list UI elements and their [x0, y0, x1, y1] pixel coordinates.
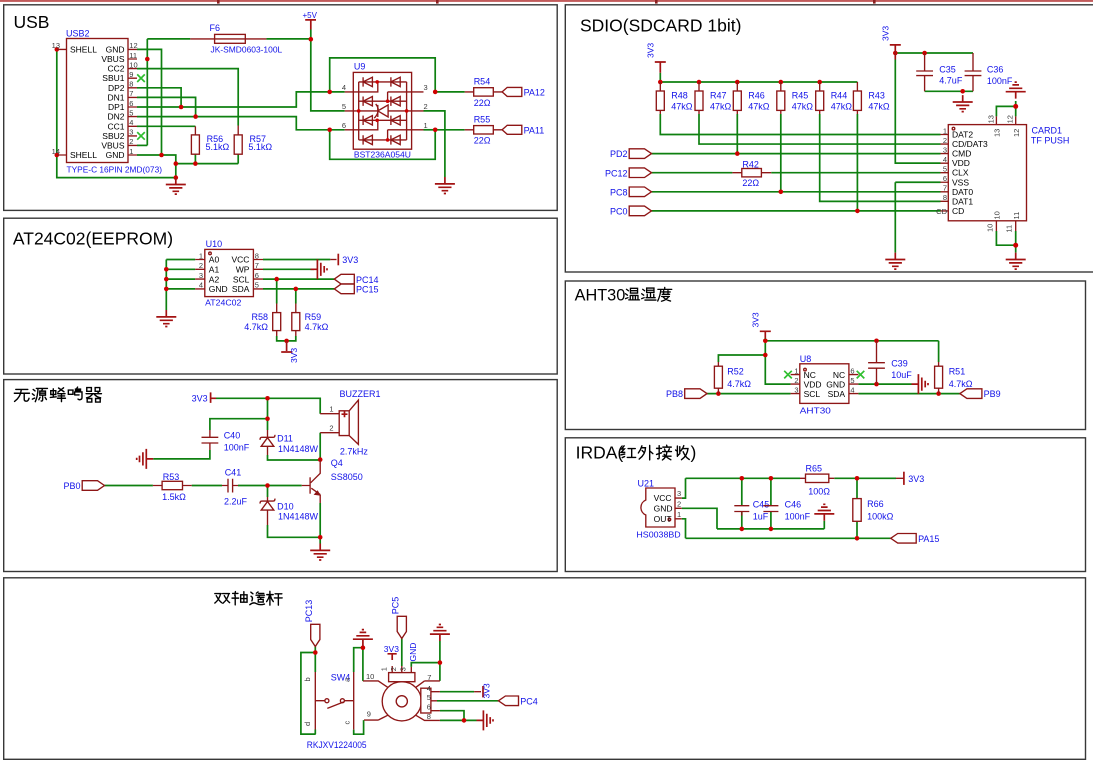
svg-text:6: 6 [129, 99, 133, 108]
wire U9 top loop [330, 58, 436, 92]
svg-text:GND: GND [106, 44, 125, 54]
svg-text:7: 7 [943, 184, 947, 193]
ground GND row sideways [912, 374, 929, 394]
svg-text:PC13: PC13 [304, 600, 314, 623]
svg-text:1: 1 [129, 147, 133, 156]
svg-text:WP: WP [236, 265, 250, 275]
svg-text:2: 2 [329, 424, 333, 433]
svg-text:11: 11 [129, 51, 137, 60]
switch SW4 section bd [303, 672, 354, 730]
wire VCC rail IRDA [682, 478, 896, 498]
svg-text:12: 12 [1006, 115, 1015, 123]
junction dots SDIO [658, 51, 1018, 248]
wire VSS to ground [895, 182, 940, 252]
port flag PB8 [666, 389, 707, 399]
svg-text:47kΩ: 47kΩ [868, 102, 890, 112]
capacitor C40 [202, 430, 250, 453]
svg-text:AHT30: AHT30 [800, 405, 831, 415]
wire 3V3 card VDD [895, 53, 973, 163]
U8 pin names [804, 370, 846, 399]
svg-text:3V3: 3V3 [881, 26, 891, 41]
port flag PC13 rotated down [304, 600, 320, 647]
wire C45 C46 leads [742, 478, 771, 529]
section frame joystick [4, 578, 1086, 760]
svg-text:OUT: OUT [654, 514, 672, 524]
svg-text:VCC: VCC [654, 493, 672, 503]
svg-text:2.7kHz: 2.7kHz [340, 447, 369, 457]
svg-text:4: 4 [199, 281, 203, 290]
svg-text:GND: GND [209, 284, 228, 294]
resistor R59 [292, 304, 329, 337]
svg-text:R46: R46 [748, 91, 765, 101]
svg-text:b: b [303, 677, 312, 681]
wire R51 top [938, 341, 940, 362]
port flag PC5 rotated down [391, 597, 407, 639]
svg-text:CD: CD [952, 206, 964, 216]
wire PB0 base [105, 486, 302, 498]
svg-text:4: 4 [129, 118, 133, 127]
svg-text:GND: GND [826, 379, 845, 389]
USB2 pin numbers [52, 41, 138, 156]
svg-text:PA11: PA11 [524, 125, 545, 135]
capacitor C46 [763, 500, 810, 522]
svg-text:R54: R54 [474, 77, 491, 87]
svg-text:R48: R48 [671, 91, 688, 101]
svg-text:3V3: 3V3 [192, 394, 208, 404]
svg-text:1: 1 [329, 405, 333, 414]
svg-text:100kΩ: 100kΩ [867, 512, 894, 522]
svg-text:U8: U8 [800, 354, 812, 364]
wire WP to ground [263, 268, 314, 270]
svg-text:6: 6 [850, 366, 854, 375]
port flag PA11 [502, 125, 544, 135]
resistor R42 [732, 159, 771, 188]
svg-text:C41: C41 [225, 468, 242, 478]
wire CD DAT3 row [699, 114, 941, 144]
junction dots AHT30 [716, 339, 941, 396]
resistor R57 [234, 126, 272, 155]
svg-text:4: 4 [943, 155, 947, 164]
power flag 3V3 IRDA [896, 472, 924, 485]
svg-text:PB0: PB0 [63, 481, 80, 491]
svg-text:R52: R52 [727, 367, 744, 377]
svg-text:C35: C35 [939, 65, 956, 75]
svg-text:47kΩ: 47kΩ [792, 102, 814, 112]
svg-text:22Ω: 22Ω [474, 136, 491, 146]
wire SDA PC15 [263, 288, 334, 290]
wire R56 R57 gnd rail [176, 154, 238, 163]
svg-text:12: 12 [1012, 129, 1021, 137]
wire card pins 10 11 [996, 231, 1015, 253]
ground joystick top right flipped [430, 625, 450, 642]
resistor R46 [733, 82, 770, 114]
svg-text:3: 3 [943, 145, 947, 154]
svg-text:SDA: SDA [232, 284, 250, 294]
svg-text:NC: NC [804, 370, 816, 380]
svg-text:2: 2 [389, 667, 398, 671]
svg-text:100nF: 100nF [987, 76, 1013, 86]
svg-text:D10: D10 [277, 501, 294, 511]
svg-text:VBUS: VBUS [101, 54, 124, 64]
svg-text:PA12: PA12 [524, 87, 545, 97]
svg-text:100Ω: 100Ω [808, 487, 830, 497]
svg-text:CC2: CC2 [107, 64, 124, 74]
svg-text:47kΩ: 47kΩ [710, 102, 732, 112]
svg-text:+5V: +5V [303, 11, 318, 20]
wire GND pin1 [137, 155, 176, 178]
section frame AT24C02 [4, 218, 558, 374]
svg-text:C45: C45 [753, 500, 770, 510]
ground WP sideways [311, 259, 328, 279]
connector CARD1 [941, 116, 1070, 231]
svg-text:PB8: PB8 [666, 389, 683, 399]
svg-text:C36: C36 [987, 65, 1004, 75]
wire C40 branch [210, 398, 268, 430]
svg-text:A0: A0 [209, 255, 220, 265]
ground VSS [885, 253, 905, 270]
svg-text:USB2: USB2 [66, 29, 90, 39]
wire switch c to pin9 [354, 720, 364, 734]
ground emitter [310, 544, 330, 561]
svg-text:SS8050: SS8050 [331, 472, 363, 482]
svg-text:CD/DAT3: CD/DAT3 [952, 139, 988, 149]
svg-text:3: 3 [794, 385, 798, 394]
svg-text:14: 14 [52, 147, 60, 156]
title joystick [215, 591, 282, 605]
svg-text:3: 3 [424, 83, 428, 92]
svg-text:22Ω: 22Ω [474, 98, 491, 108]
wire CC2 to R57 [137, 69, 238, 126]
svg-text:C46: C46 [785, 500, 802, 510]
svg-text:5: 5 [129, 108, 133, 117]
port flag PC8 [610, 187, 652, 197]
resistor R45 [777, 82, 814, 114]
svg-text:3: 3 [199, 271, 203, 280]
svg-text:R55: R55 [474, 115, 491, 125]
svg-text:R45: R45 [792, 91, 809, 101]
resistor R56 [191, 126, 229, 154]
resistor R53 [153, 472, 192, 502]
port flag PA15 [891, 534, 940, 545]
wire PB8 SCL row [707, 393, 791, 395]
svg-text:47kΩ: 47kΩ [831, 102, 853, 112]
svg-text:AT24C02(EEPROM): AT24C02(EEPROM) [13, 228, 173, 248]
svg-text:PC15: PC15 [356, 285, 379, 295]
power flag 3V3 AHT30 [751, 312, 771, 338]
ground card bottom [1006, 253, 1026, 270]
svg-text:GND: GND [408, 643, 418, 662]
ground card top flipped [1006, 82, 1026, 99]
svg-text:VCC: VCC [231, 255, 249, 265]
wire 3V3 rail AHT30 [765, 338, 938, 384]
svg-text:4: 4 [850, 385, 854, 394]
svg-text:2: 2 [794, 376, 798, 385]
power flag 3V3 buzzer [192, 392, 216, 403]
svg-text:100nF: 100nF [224, 443, 250, 453]
svg-text:6: 6 [943, 174, 947, 183]
port flag PB0 [63, 481, 104, 491]
svg-text:1.5kΩ: 1.5kΩ [162, 492, 186, 502]
ground above switch flipped [353, 630, 373, 647]
section frame USB [4, 5, 558, 211]
svg-text:5.1kΩ: 5.1kΩ [248, 142, 272, 152]
svg-text:R59: R59 [305, 312, 322, 322]
svg-text:1: 1 [677, 510, 681, 519]
wire A0 A1 A2 GND to ground [166, 260, 195, 311]
svg-text:SBU2: SBU2 [102, 131, 124, 141]
svg-text:c: c [342, 721, 351, 725]
svg-text:1N4148W: 1N4148W [278, 512, 319, 522]
svg-text:13: 13 [52, 41, 60, 50]
svg-text:10: 10 [993, 211, 1002, 219]
svg-text:4: 4 [427, 684, 431, 693]
svg-text:DAT1: DAT1 [952, 196, 973, 206]
ground C35 C36 [953, 95, 973, 112]
capacitor C36 [965, 53, 1013, 91]
wire U9 pin3 to R54 [435, 91, 465, 93]
port flag PC0 [610, 206, 652, 216]
section frame SDIO [565, 5, 1093, 272]
svg-text:NC: NC [833, 370, 845, 380]
wire CLX row PC12 [652, 172, 941, 174]
ground C40 sideways left [137, 449, 154, 469]
svg-text:13: 13 [986, 115, 995, 123]
svg-text:R44: R44 [831, 91, 848, 101]
svg-text:5: 5 [342, 102, 346, 111]
svg-text:BST236A054U: BST236A054U [354, 150, 411, 160]
svg-text:1: 1 [943, 126, 947, 135]
svg-text:GND: GND [106, 150, 125, 160]
svg-text:PC0: PC0 [610, 207, 628, 217]
svg-text:PC5: PC5 [391, 597, 401, 615]
wire OUT PA15 [682, 519, 891, 539]
svg-text:A1: A1 [209, 265, 220, 275]
wire CMD row PD2 [652, 114, 941, 154]
svg-text:1N4148W: 1N4148W [278, 444, 319, 454]
svg-text:10: 10 [129, 60, 137, 69]
capacitor C35 [916, 53, 963, 91]
wire pin3 gnd elbow [411, 641, 440, 681]
svg-text:10: 10 [985, 224, 994, 232]
svg-text:D11: D11 [277, 434, 293, 444]
sensor U8 [791, 354, 859, 415]
svg-text:SCL: SCL [233, 274, 250, 284]
svg-text:47kΩ: 47kΩ [671, 102, 693, 112]
wire SDA PB9 row [858, 393, 960, 395]
svg-text:C39: C39 [891, 358, 908, 368]
wire GND row C39 [858, 383, 911, 385]
wire R58 R59 pullup bottom [277, 279, 296, 341]
svg-text:TF PUSH: TF PUSH [1031, 135, 1070, 145]
sheet border ruler strip [0, 0, 1093, 4]
wire R52 branch [718, 355, 765, 362]
svg-text:SHELL: SHELL [70, 44, 97, 54]
svg-text:7: 7 [427, 673, 431, 682]
ground pin8 sideways right [477, 710, 494, 730]
svg-text:SCL: SCL [804, 389, 821, 399]
svg-text:): ) [691, 443, 697, 463]
svg-text:VDD: VDD [804, 379, 822, 389]
svg-text:AHT30: AHT30 [575, 287, 626, 305]
wire buzzer pin2 to collector [319, 433, 321, 460]
svg-text:3V3: 3V3 [289, 348, 299, 363]
svg-text:4.7kΩ: 4.7kΩ [244, 322, 268, 332]
svg-text:RKJXV1224005: RKJXV1224005 [307, 740, 367, 750]
ground IRDA flipped [814, 504, 834, 521]
port flag PA12 [502, 87, 545, 97]
wire DAT1 row [820, 114, 941, 201]
svg-text:R65: R65 [806, 463, 823, 473]
resistor R47 [695, 82, 732, 114]
svg-text:R51: R51 [949, 367, 966, 377]
svg-text:1: 1 [380, 667, 389, 671]
wire GND pin2 rail [682, 508, 825, 529]
U10 pin names [209, 255, 250, 294]
capacitor C41 [222, 468, 248, 507]
power flag 3V3 joystick pin4 [474, 683, 491, 698]
joystick body SW4 [307, 666, 440, 750]
wire C35 C36 caps [925, 90, 973, 92]
power flag +5V [303, 11, 318, 30]
no-connect X SBU2 [137, 132, 145, 140]
svg-text:5: 5 [427, 693, 431, 702]
wire pin5 PC4 [437, 700, 498, 702]
svg-text:A2: A2 [209, 274, 220, 284]
svg-text:GND: GND [654, 503, 673, 513]
svg-text:2: 2 [199, 261, 203, 270]
resistor R54 [465, 77, 502, 108]
svg-text:2.2uF: 2.2uF [224, 496, 248, 506]
svg-text:3V3: 3V3 [384, 644, 399, 654]
wire C40 bottom to ground [153, 450, 210, 459]
section frame AHT30 [565, 281, 1085, 430]
svg-text:6: 6 [427, 702, 431, 711]
svg-text:100nF: 100nF [785, 512, 811, 522]
svg-text:TYPE-C 16PIN 2MD(073): TYPE-C 16PIN 2MD(073) [67, 165, 163, 175]
wire PC5 to pin2 [401, 639, 403, 667]
svg-text:R58: R58 [251, 312, 268, 322]
wire 3V3 top buzzer [216, 398, 320, 413]
section frame buzzer [4, 380, 558, 572]
svg-text:DN2: DN2 [107, 112, 124, 122]
wire CC1 to R56 [137, 125, 195, 127]
svg-text:5.1kΩ: 5.1kΩ [206, 142, 230, 152]
svg-text:2: 2 [677, 499, 681, 508]
resistor R66 [853, 499, 894, 522]
svg-text:d: d [303, 722, 312, 726]
wire gnd node to pin10 [362, 648, 364, 681]
svg-text:SDIO(SDCARD 1bit): SDIO(SDCARD 1bit) [580, 15, 741, 35]
U10 pin numbers [199, 251, 259, 289]
no-connect X U8 pin6 [857, 371, 865, 379]
wire pin6 down [440, 711, 464, 721]
wire switch a to gnd node [354, 648, 363, 672]
svg-text:JK-SMD0603-100L: JK-SMD0603-100L [211, 45, 283, 55]
svg-text:1: 1 [199, 251, 203, 260]
svg-text:U10: U10 [206, 239, 223, 249]
svg-text:PA15: PA15 [918, 534, 939, 544]
port flag PC4 [498, 696, 537, 707]
wire emitter gnd rail [268, 503, 321, 544]
wire DP2 [137, 88, 181, 107]
svg-text:SHELL: SHELL [70, 150, 97, 160]
U8 pin numbers [794, 366, 854, 394]
svg-text:1: 1 [794, 366, 798, 375]
svg-text:6: 6 [255, 271, 259, 280]
svg-text:3: 3 [399, 667, 408, 671]
svg-text:R47: R47 [710, 91, 727, 101]
svg-text:12: 12 [129, 41, 137, 50]
svg-text:3V3: 3V3 [751, 312, 761, 327]
capacitor C45 [734, 500, 769, 522]
svg-text:R53: R53 [163, 472, 180, 482]
svg-text:U21: U21 [638, 478, 655, 488]
junction dots USB [55, 37, 438, 180]
svg-text:4.7kΩ: 4.7kΩ [305, 322, 329, 332]
svg-text:PC8: PC8 [610, 187, 628, 197]
svg-text:PB9: PB9 [984, 389, 1001, 399]
svg-text:U9: U9 [354, 62, 366, 72]
resistor R43 [853, 82, 890, 114]
CARD1 pin numbers [936, 115, 1021, 233]
svg-text:1uF: 1uF [753, 512, 769, 522]
switch SW4 section ac [342, 672, 353, 730]
diode D10 [260, 497, 318, 525]
wire U9 pin1 to R55 [424, 129, 436, 131]
svg-text:PC4: PC4 [520, 697, 538, 707]
resistor R52 [714, 362, 751, 394]
connector USB2 [57, 29, 162, 175]
ground U9 pin2 [435, 177, 455, 194]
transistor Q4 [302, 458, 363, 503]
svg-text:PD2: PD2 [610, 149, 628, 159]
svg-text:IRDA(: IRDA( [576, 443, 624, 463]
svg-text:3: 3 [677, 489, 681, 498]
wire SCL PC14 [263, 278, 334, 280]
power flag 3V3 VCC [330, 254, 358, 266]
svg-text:DP1: DP1 [108, 102, 125, 112]
wire R55 lead [435, 129, 465, 131]
wire VBUS vertical [146, 39, 148, 145]
title AHT30 [575, 287, 672, 305]
svg-text:AT24C02: AT24C02 [205, 298, 242, 308]
svg-text:C40: C40 [224, 430, 241, 440]
power flag 3V3 pullups [646, 43, 666, 73]
wire DAT2 row [660, 114, 940, 135]
section frame IRDA [565, 438, 1085, 572]
power flag 3V3 card [881, 26, 901, 60]
svg-text:3V3: 3V3 [482, 683, 492, 698]
junction dots buzzer [265, 396, 322, 540]
svg-text:BUZZER1: BUZZER1 [340, 389, 381, 399]
svg-text:5: 5 [850, 376, 854, 385]
ground USB shell [166, 178, 186, 195]
svg-text:DP2: DP2 [108, 83, 125, 93]
diode D11 [260, 430, 318, 455]
no-connect X U8 pin1 [784, 371, 792, 379]
svg-text:1: 1 [424, 121, 428, 130]
resistor R51 [935, 362, 973, 394]
title buzzer [14, 387, 101, 402]
wire U9 bottom loop [330, 130, 436, 160]
CARD1 pin names [952, 130, 988, 216]
svg-text:4.7kΩ: 4.7kΩ [949, 379, 973, 389]
wire DN1 [137, 97, 196, 116]
svg-text:5: 5 [255, 281, 259, 290]
wire PC13 to switch loop [301, 647, 316, 735]
svg-text:PC14: PC14 [356, 275, 379, 285]
wire +5V net [147, 30, 344, 111]
